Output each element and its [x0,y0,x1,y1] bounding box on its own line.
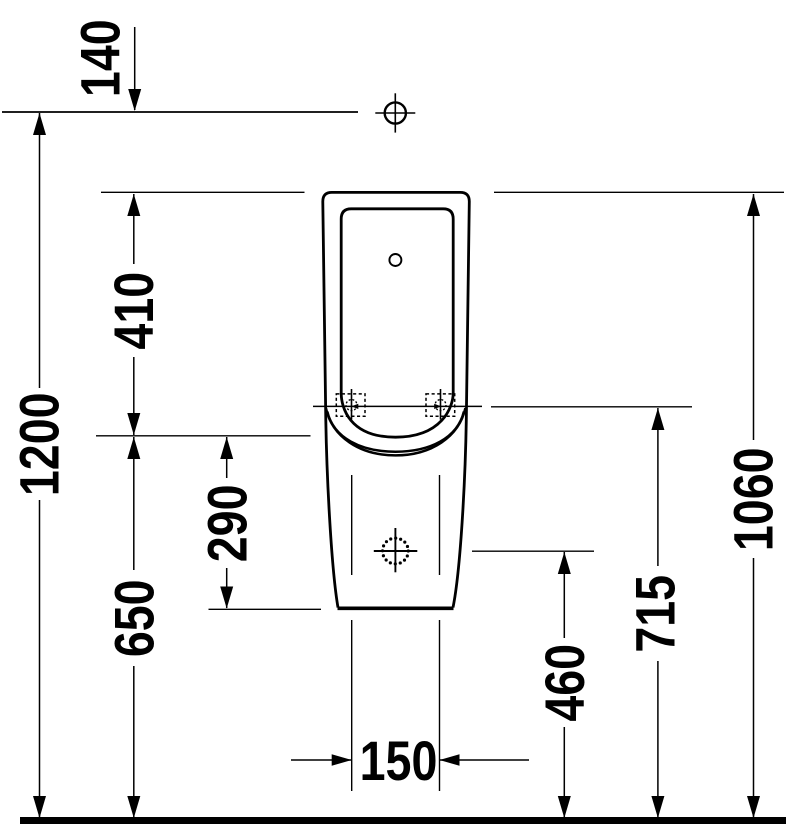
svg-text:460: 460 [534,644,596,722]
svg-text:410: 410 [103,272,165,350]
basin small circle (spreader hole) [389,254,401,266]
dimension 1200 line [39,113,41,818]
top water inlet crosshair circle [385,102,406,123]
left mounting hole centerline vertical [351,389,353,420]
dimension 650 line [133,437,135,818]
extension line top of urinal right [494,191,784,193]
right mounting hole arrow [434,404,441,409]
dimension 1060 line [753,194,755,818]
dimension 715 line [657,408,659,818]
floor line [20,817,786,824]
right mounting hole dashed square [426,394,455,416]
outlet crosshair vertical [394,528,396,572]
right mounting hole centerline vertical [440,389,442,420]
left mounting hole dashed circle [346,400,357,411]
extension line hole level right [491,406,692,408]
svg-text:1200: 1200 [9,392,71,496]
urinal inner basin outline [341,209,453,437]
dimension 410 line [133,194,135,435]
svg-text:1060: 1060 [723,447,785,551]
dimension 460 line [563,552,565,818]
hidden drain line left [351,475,353,575]
hidden drain line right [439,475,441,575]
mounting hole centerline [313,405,482,407]
rim lower edge inner arc [327,412,464,452]
dimension 140 line [134,27,136,110]
urinal outer outline [323,192,470,607]
dimension 150 left arrow [291,759,352,761]
svg-text:140: 140 [70,19,132,97]
svg-text:650: 650 [104,579,166,657]
outlet dotted circle [383,538,409,564]
outlet crosshair horizontal [374,550,418,552]
svg-text:715: 715 [625,575,687,653]
extension line outlet level [472,550,594,552]
dimension 150 extension line right [439,620,441,791]
left mounting hole dashed square [336,394,365,416]
extension line rim level [96,435,311,437]
dimension 150 extension line left [351,620,353,791]
wall reference line [2,111,358,113]
dimension 150 right arrow [440,759,530,761]
svg-text:150: 150 [360,730,438,792]
dimension 290 line [226,437,228,608]
extension line top of urinal left [101,191,305,193]
right mounting hole dashed circle [435,400,446,411]
extension line urinal bottom [209,608,322,610]
rim lower edge outer arc [326,408,466,455]
urinal bottom edge [338,606,454,610]
left mounting hole arrow [351,404,358,409]
svg-text:290: 290 [197,485,259,563]
